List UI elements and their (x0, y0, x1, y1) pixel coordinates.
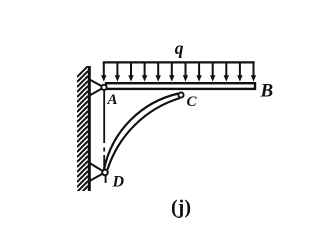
svg-text:C: C (187, 94, 198, 110)
svg-text:B: B (260, 81, 274, 102)
svg-text:A: A (107, 92, 118, 108)
svg-text:(j): (j) (171, 197, 191, 219)
svg-text:D: D (112, 174, 125, 191)
svg-text:q: q (175, 38, 184, 58)
